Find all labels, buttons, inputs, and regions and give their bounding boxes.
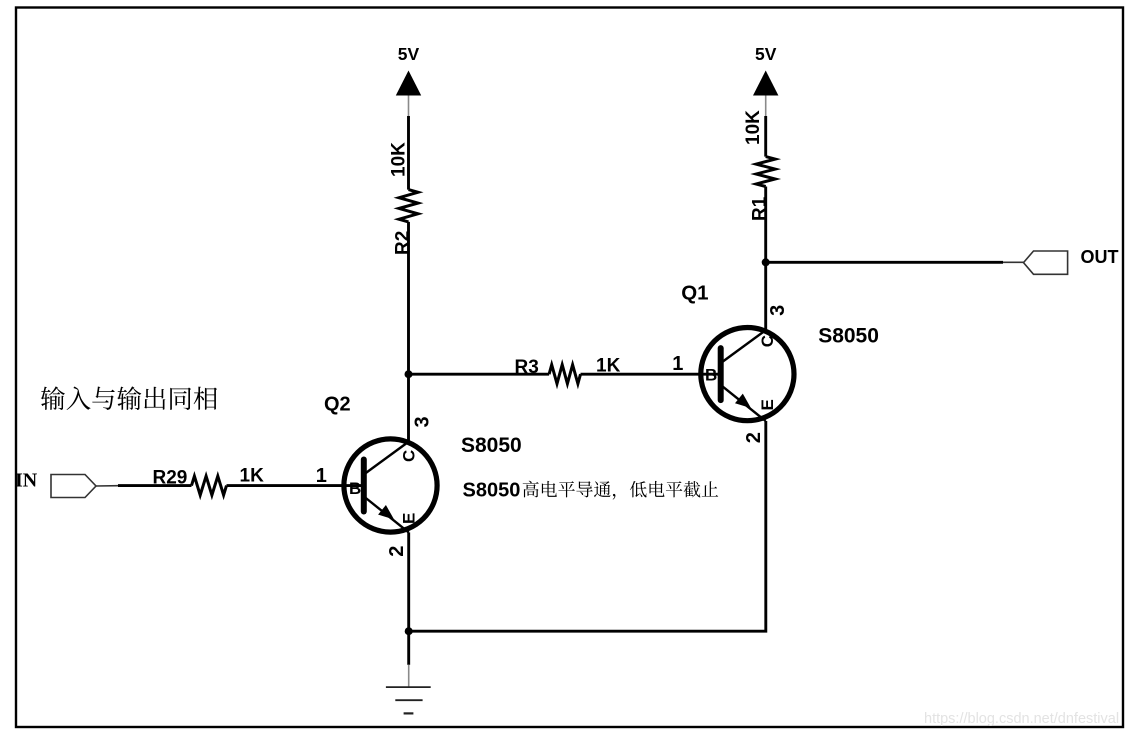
svg-text:E: E: [400, 513, 419, 524]
wire R29 to Q2 base: [227, 484, 366, 487]
svg-text:5V: 5V: [755, 44, 777, 64]
transistor Q2 base bar: [361, 460, 367, 512]
wire IN to R29: [118, 484, 192, 487]
svg-text:3: 3: [767, 305, 789, 316]
power symbol 5V (left) stem: [408, 96, 410, 117]
svg-text:S8050: S8050: [463, 480, 521, 502]
svg-text:R3: R3: [515, 357, 539, 378]
annotation S8050 note: Chinese part: [523, 481, 719, 500]
power symbol 5V (left) arrow: [396, 71, 421, 96]
svg-text:S8050: S8050: [461, 434, 522, 457]
OUT port symbol: [1024, 251, 1068, 274]
annotation: input and output in phase (Chinese): [41, 386, 217, 410]
wire 5V to R1: [764, 116, 767, 157]
svg-text:https://blog.csdn.net/dnfestiv: https://blog.csdn.net/dnfestival: [924, 711, 1119, 727]
wire R3 to Q1 base: [581, 373, 723, 376]
wire R2 to node A: [407, 222, 410, 374]
svg-text:Q1: Q1: [681, 281, 708, 304]
transistor Q2 emitter stroke: [366, 498, 409, 532]
wire 5V to R2: [407, 116, 410, 190]
svg-text:1: 1: [316, 465, 327, 487]
svg-text:10K: 10K: [389, 142, 410, 177]
transistor Q2 emitter arrow: [378, 505, 394, 520]
svg-text:C: C: [400, 450, 419, 462]
transistor Q1 emitter stroke: [723, 387, 766, 421]
transistor Q2 collector stroke: [366, 442, 409, 473]
svg-text:E: E: [758, 399, 777, 410]
svg-text:R1: R1: [750, 196, 771, 221]
svg-text:B: B: [349, 479, 361, 498]
resistor R1 zigzag: [756, 157, 775, 187]
svg-text:2: 2: [743, 432, 765, 443]
power symbol 5V (right) stem: [765, 96, 767, 117]
transistor Q1 collector stroke: [723, 330, 766, 361]
wire Q2 emitter to ground node: [407, 532, 410, 631]
svg-text:2: 2: [386, 546, 408, 557]
ground bar 1: [386, 686, 431, 688]
wire node OUT to OUT port: [766, 261, 1003, 264]
transistor Q2 circle: [344, 439, 437, 532]
svg-text:IN: IN: [15, 470, 38, 492]
wire node A to Q2 collector: [407, 374, 410, 442]
wire node A to R3: [409, 373, 550, 376]
transistor Q1 circle: [701, 328, 794, 421]
wire R1 to node OUT: [764, 187, 767, 263]
svg-text:Q2: Q2: [324, 394, 351, 416]
resistor R29 zigzag: [192, 476, 227, 495]
ground stem gray: [408, 665, 410, 687]
ground stem black: [407, 631, 410, 665]
ground node junction dot: [405, 627, 413, 635]
IN port lead: [96, 485, 118, 487]
wire node OUT to Q1 collector: [764, 262, 767, 330]
svg-text:1K: 1K: [240, 466, 265, 487]
wire ground node to Q1 emitter (bottom bus): [409, 421, 766, 631]
svg-text:C: C: [758, 335, 777, 347]
node OUT junction dot: [762, 258, 770, 266]
svg-text:10K: 10K: [743, 110, 764, 145]
svg-text:OUT: OUT: [1081, 247, 1119, 267]
OUT port lead: [1003, 261, 1024, 263]
svg-text:5V: 5V: [398, 44, 420, 64]
IN port symbol: [51, 475, 96, 498]
node A junction dot: [405, 370, 413, 378]
svg-text:1: 1: [672, 353, 683, 375]
resistor R2 zigzag: [399, 190, 418, 222]
ground bar 2: [395, 699, 422, 701]
svg-text:S8050: S8050: [818, 325, 879, 348]
svg-text:R2: R2: [392, 231, 413, 255]
svg-text:3: 3: [412, 416, 434, 427]
power symbol 5V (right) arrow: [753, 71, 778, 96]
transistor Q1 base bar: [718, 348, 724, 400]
ground bar 3: [404, 712, 414, 714]
transistor Q1 emitter arrow: [735, 394, 751, 409]
svg-text:R29: R29: [153, 468, 188, 489]
resistor R3 zigzag: [549, 365, 580, 384]
